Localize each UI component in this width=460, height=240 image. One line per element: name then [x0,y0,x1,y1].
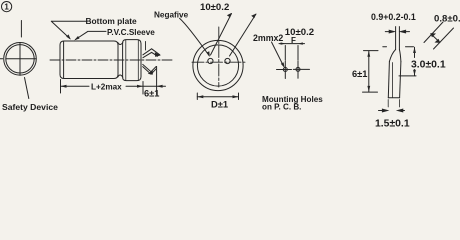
extension line at lead break tip [156,67,158,95]
lead break symbol small vertical [145,42,147,51]
svg-text:D±1: D±1 [211,99,228,110]
F left arrow (pointing right) [281,42,286,44]
bottom view vertical centerline [218,27,220,87]
3.0 down arrow [413,70,416,76]
6±1 top tick (lead detail) [364,50,379,52]
lead wire right edge [398,27,400,50]
safety vent front view: outer circle [4,43,37,76]
6±1 bottom tick (lead detail) [363,91,378,93]
6±1 right arrow [157,85,163,88]
taper level left tick [383,46,387,48]
seal right inner line [137,40,139,81]
left lead hole [208,58,213,63]
svg-text:0.8±0.1: 0.8±0.1 [434,14,460,25]
left mounting hole cross [277,61,292,79]
seal left inner line [125,40,127,81]
lead break symbol upper chevron 2 [143,52,158,57]
svg-text:3.0±0.1: 3.0±0.1 [411,60,446,71]
3.0 up arrow [413,47,416,53]
L+2max left arrow [61,85,67,88]
lead taper right side [399,50,401,62]
lead break symbol lower chevron 2 [143,67,157,75]
capacitor centerline (dash-dot) [50,59,172,61]
svg-text:10±0.2: 10±0.2 [285,27,314,38]
2mmx2 leader arrowhead [281,62,285,68]
vertical centerline above safety vent [20,21,22,38]
svg-text:10±0.2: 10±0.2 [200,2,229,13]
capacitor body (side view) [60,41,118,79]
svg-text:Safety Device: Safety Device [2,102,58,112]
bottom view outer circle [193,40,243,90]
svg-text:2mmx2: 2mmx2 [253,33,283,43]
lead taper left side [389,50,395,62]
lead wire left edge [395,27,397,50]
svg-text:Negafive: Negafive [154,11,189,20]
crimp neck top [118,43,123,45]
lead flat inner line [391,63,393,98]
safety vent cross horizontal line [0,58,36,60]
1.5±0.1 right extension dash [398,100,400,108]
bottom plate leader arrowhead [66,34,71,39]
bottom view inner circle [197,45,238,86]
6±1 dimension line vertical [368,51,370,92]
lead spacing arrow right [251,14,256,18]
3.0 dimension line upper [414,47,416,57]
left mounting hole circle [283,68,287,72]
thickness arrow upper (tip at line 1) [430,33,436,37]
right lead hole [225,58,230,63]
lead break symbol upper arrow tip [155,52,161,57]
1.5±0.1 left extension dash [387,100,389,108]
3.0 bottom tick [399,75,416,77]
svg-text:Bottom plate: Bottom plate [86,16,138,26]
svg-text:6±1: 6±1 [352,69,367,79]
thickness arrow lower (tip at line 2) [435,39,441,43]
1.5 left arrow [379,109,388,112]
svg-text:0.9+0.2-0.1: 0.9+0.2-0.1 [371,12,416,22]
6±1 dimension line (short span) [143,85,166,87]
L+2max right arrow [137,85,143,88]
6±1 up arrow [367,51,370,57]
right mounting hole cross [293,61,309,78]
extension line left of L+2max [60,80,62,94]
safety vent cross vertical line [19,43,21,75]
F dimension line with outside arrows [279,43,305,45]
6±1 down arrow [367,86,370,92]
wire diameter right arrow [401,30,410,33]
L+2max dimension line [61,85,144,87]
oblique leader line from left lead [211,14,232,56]
svg-text:1.5±0.1: 1.5±0.1 [375,118,410,129]
lead flat part left side [388,62,389,98]
wire diameter left arrow [385,30,394,33]
1.5 right arrow [398,109,405,112]
PVC sleeve leader arrowhead [74,36,79,40]
extension line at seal right edge [142,82,144,95]
rubber seal end [123,40,141,81]
crimp neck bottom [118,75,123,77]
F right arrow (pointing left) [298,42,303,44]
thickness section diagonal line 1 [424,22,443,43]
svg-text:L+2max: L+2max [91,82,122,91]
lead break symbol lower chevron 1 [143,64,157,71]
leader line to Safety Device text [25,78,29,99]
3.0 dimension line lower [414,70,416,76]
D±1 left arrow [197,95,203,98]
safety vent front view: inner circle [6,45,34,73]
mounting hole left extension line [284,46,286,61]
oblique leader line from right lead [230,14,257,56]
lead spacing arrow left [227,13,231,18]
negative leader arrowhead [207,51,210,57]
svg-text:6±1: 6±1 [144,88,159,98]
lead break symbol upper chevron 1 [143,49,160,55]
right mounting hole circle [296,67,300,71]
D±1 left extension tick [196,93,198,100]
3.0 top tick [406,46,414,48]
svg-text:on P. C. B.: on P. C. B. [262,103,301,112]
D±1 right arrow [233,95,239,98]
lead flat part right side [400,62,401,98]
bottom view horizontal centerline [192,61,245,63]
thickness section diagonal line 2 [434,28,454,49]
circled number 1 [2,2,12,12]
svg-text:P.V.C.Sleeve: P.V.C.Sleeve [107,28,155,37]
bottom plate seam line [63,41,65,78]
svg-text:1: 1 [4,3,9,12]
D±1 dimension line [197,96,238,98]
lead flat part bottom [388,97,399,99]
2mmx2 leader line [272,42,284,65]
mounting hole right extension line [297,46,299,61]
bottom plate leader line [51,21,87,38]
negative terminal leader curve [180,18,210,55]
D±1 right extension tick [238,93,240,100]
PVC sleeve leader line [76,31,107,39]
lead break symbol lower arrow tip [148,70,153,75]
thickness double arrow [431,34,440,42]
